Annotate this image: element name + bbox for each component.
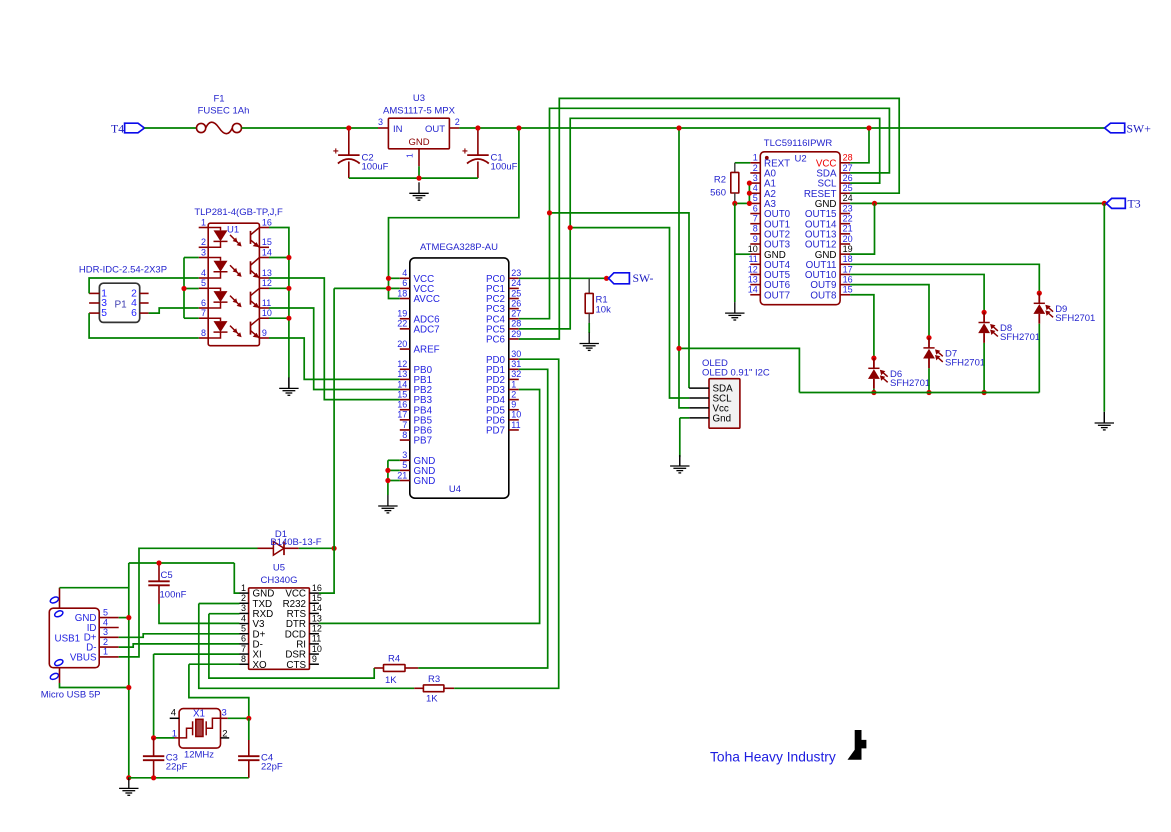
U5 pin 11 RI	[296, 634, 321, 651]
svg-text:R3: R3	[428, 674, 440, 685]
ground under U2	[725, 302, 744, 320]
wire SDA branch to OLED	[550, 213, 690, 388]
svg-text:15: 15	[397, 389, 407, 399]
ground under OLED	[670, 455, 689, 473]
svg-text:10k: 10k	[596, 304, 612, 315]
wire PC0 to SW-	[519, 277, 607, 279]
wire U2 OUT to D6	[850, 295, 874, 358]
svg-text:26: 26	[843, 173, 853, 183]
svg-text:9: 9	[262, 328, 267, 338]
svg-text:32: 32	[511, 369, 521, 379]
wire U5 RXD	[209, 613, 240, 615]
junction pin14	[286, 255, 291, 260]
svg-text:1: 1	[511, 379, 516, 389]
U1 pin 6	[199, 298, 209, 308]
svg-text:USB1: USB1	[55, 634, 81, 645]
wire U2 VCC pin28 to rail	[850, 128, 869, 163]
junction rail/U2 VCC	[866, 125, 871, 130]
svg-text:31: 31	[511, 359, 521, 369]
svg-text:7: 7	[753, 214, 758, 224]
U4 pin 30 PD0	[486, 349, 521, 366]
svg-text:29: 29	[511, 329, 521, 339]
svg-text:24: 24	[511, 278, 521, 288]
svg-text:20: 20	[843, 234, 853, 244]
wire X1 pin3 to C4	[228, 717, 249, 719]
svg-text:VBUS: VBUS	[70, 652, 97, 663]
svg-text:11: 11	[262, 298, 271, 308]
net flag T3	[1106, 198, 1125, 208]
net flag SW+	[1105, 123, 1125, 133]
U5 pin 12 DCD	[285, 624, 322, 641]
wire U5 XO	[189, 663, 240, 665]
svg-text:+: +	[462, 146, 468, 157]
wire U2 OUT to D7	[850, 285, 929, 338]
svg-text:2: 2	[241, 593, 246, 603]
svg-text:6: 6	[131, 308, 137, 319]
junction SCL branch	[568, 225, 573, 230]
U4 pin 18 AVCC	[397, 288, 440, 305]
U4 pin 25 PC2	[486, 288, 521, 305]
junction VCC pin4	[386, 276, 391, 281]
wire XO to X1 pin3	[189, 664, 249, 718]
ground under U1	[279, 377, 298, 395]
wire U1 pin14	[269, 257, 289, 259]
wire R3 to PD0	[454, 359, 559, 688]
U5 pin 10 DSR	[285, 644, 322, 661]
wire to U1 pin3	[184, 257, 199, 259]
wire OLED Gnd	[680, 417, 689, 419]
U5 pin 2 TXD	[240, 593, 273, 610]
svg-text:+: +	[333, 146, 339, 157]
svg-text:T4: T4	[111, 121, 124, 135]
wire A3 to R2 node	[735, 202, 751, 204]
junction A1	[747, 181, 752, 186]
U1 channel 1 LED/transistor	[208, 228, 259, 248]
svg-text:1: 1	[241, 583, 246, 593]
capacitor C3 22pF	[143, 738, 188, 778]
fuse F1	[197, 122, 242, 134]
U4 pin 17 PB5	[397, 410, 432, 427]
U4 pin 6 VCC	[400, 278, 434, 295]
U1 pin 15	[259, 237, 272, 247]
photodiode D7 SFH2701	[923, 338, 985, 393]
U2 pin 20 OUT12	[805, 234, 853, 251]
P1 pin 3	[89, 298, 107, 309]
svg-text:PD7: PD7	[486, 426, 505, 437]
svg-text:5: 5	[753, 193, 758, 203]
svg-text:10: 10	[262, 308, 272, 318]
wire shell to GND rail	[60, 587, 129, 589]
junction pin12	[286, 286, 291, 291]
svg-text:3: 3	[402, 450, 407, 460]
U1 pin 4	[199, 268, 209, 278]
U2 pin 23 OUT15	[805, 203, 853, 220]
junction GND pin21	[385, 478, 390, 483]
U4 pin 5 GND	[400, 460, 435, 477]
svg-text:U4: U4	[449, 484, 461, 495]
svg-text:100uF: 100uF	[362, 162, 389, 173]
U1 pin 13	[259, 268, 272, 278]
svg-text:6: 6	[753, 203, 758, 213]
U2 pin 28 VCC	[816, 153, 853, 170]
svg-text:1K: 1K	[426, 694, 438, 705]
P1 pin 4	[131, 298, 149, 309]
junction OLED Vcc branch	[676, 346, 681, 351]
U2 pin 6 OUT0	[750, 203, 790, 220]
net flag T4	[125, 123, 145, 133]
svg-text:10: 10	[511, 410, 521, 420]
wire RESET net PC6 to U2 RESET	[519, 98, 899, 339]
wire C5 to U5 V3	[159, 604, 240, 623]
svg-text:U2: U2	[795, 154, 807, 165]
wire to U1 pin5	[184, 288, 199, 290]
wire photodiode bottom rail	[799, 392, 1039, 394]
svg-text:560: 560	[710, 187, 726, 198]
junction D6 pin	[871, 356, 876, 361]
capacitor C2 100uF	[333, 128, 389, 178]
svg-text:18: 18	[397, 288, 407, 298]
junction D1/VCC net	[332, 546, 337, 551]
svg-text:1: 1	[753, 153, 758, 163]
svg-text:6: 6	[201, 298, 206, 308]
wire USB D+ to U5	[119, 634, 240, 638]
logo mark	[848, 730, 867, 760]
wire R2 node to ground	[734, 203, 736, 302]
svg-text:26: 26	[511, 298, 521, 308]
svg-text:1: 1	[201, 217, 206, 227]
net flag SW-	[609, 273, 630, 284]
mcu U4 ATMEGA328P-AU	[410, 242, 509, 498]
U2 pin 2 A0	[750, 163, 776, 180]
U4 pin 13 PB1	[397, 369, 432, 386]
U2 pin 10 GND	[748, 244, 786, 261]
P1 pin 2	[131, 289, 149, 300]
svg-text:ATMEGA328P-AU: ATMEGA328P-AU	[420, 242, 498, 253]
svg-text:F1: F1	[213, 94, 224, 105]
svg-text:18: 18	[843, 254, 853, 264]
U2 pin 11 OUT4	[748, 254, 790, 271]
svg-text:13: 13	[312, 613, 322, 623]
U2 pin 5 A3	[750, 193, 776, 210]
USB1 shell hole	[54, 610, 64, 618]
junction X1 pin1/C3	[151, 735, 156, 740]
junction D9 pin	[1037, 291, 1042, 296]
svg-text:19: 19	[843, 244, 853, 254]
svg-text:2: 2	[201, 237, 206, 247]
U2 pin 27 SDA	[816, 163, 852, 180]
svg-text:12: 12	[262, 278, 272, 288]
U1 pin 3	[199, 247, 209, 257]
capacitor C4 22pF	[238, 718, 283, 778]
junction pin10	[286, 316, 291, 321]
junction GND pin5	[385, 468, 390, 473]
wire fuse to U3 IN	[242, 127, 379, 129]
svg-text:SW+: SW+	[1127, 121, 1152, 135]
svg-text:16: 16	[262, 217, 272, 227]
svg-text:16: 16	[397, 400, 407, 410]
USB1 pin 4 ID	[87, 617, 119, 634]
svg-text:12MHz: 12MHz	[184, 750, 214, 761]
OLED pin Gnd	[689, 414, 731, 425]
wire XI down to X1 pin1	[153, 654, 155, 738]
svg-text:CH340G: CH340G	[261, 575, 298, 586]
svg-text:19: 19	[397, 309, 407, 319]
svg-text:10: 10	[312, 644, 322, 654]
svg-text:17: 17	[397, 410, 407, 420]
U1 pin 2	[199, 237, 209, 247]
crystal X1 12MHz	[170, 708, 230, 761]
U4 pin 7 PB6	[400, 420, 433, 437]
svg-text:Toha Heavy Industry: Toha Heavy Industry	[710, 750, 836, 765]
wire to U1 pin7	[184, 317, 199, 319]
svg-text:14: 14	[748, 285, 758, 295]
U1 channel 4 LED/transistor	[208, 318, 259, 338]
USB1 pin 1 VBUS	[70, 647, 119, 664]
wire to U2 GND pin10	[735, 253, 751, 255]
U2 pin 15 OUT8	[810, 285, 852, 302]
connector P1 HDR-IDC-2.54-2X3P	[79, 265, 167, 323]
svg-text:5: 5	[201, 278, 206, 288]
junction strap pin5	[181, 286, 186, 291]
svg-text:5: 5	[103, 607, 108, 617]
svg-text:GND: GND	[414, 476, 436, 487]
svg-text:Gnd: Gnd	[713, 414, 732, 425]
svg-text:OUT: OUT	[425, 124, 445, 135]
svg-text:9: 9	[753, 234, 758, 244]
svg-text:X1: X1	[193, 709, 205, 720]
U4 pin 22 ADC7	[397, 319, 439, 336]
USB1 shell top lead	[59, 588, 61, 609]
U1 pin 16	[259, 217, 272, 227]
wire TXD to R3	[199, 604, 414, 689]
wire U5 TXD	[199, 603, 240, 605]
U2 pin 8 OUT2	[750, 224, 790, 241]
junction rail/C1	[475, 125, 480, 130]
svg-text:22pF: 22pF	[166, 762, 188, 773]
U5 pin 7 XI	[240, 644, 262, 661]
P1 pin 5	[89, 308, 107, 319]
wire U4 GND pin3	[388, 459, 400, 461]
U1 channel 2 LED/transistor	[208, 258, 259, 279]
svg-text:8: 8	[241, 654, 246, 664]
USB1 pin 5 GND	[75, 607, 119, 624]
U1 pin 1	[199, 217, 209, 227]
svg-text:U5: U5	[273, 563, 285, 574]
svg-text:PC6: PC6	[486, 335, 506, 346]
U4 pin 32 PD2	[486, 369, 521, 386]
wire U1 pin10	[269, 317, 289, 319]
USB1 pin 3 D+	[84, 627, 119, 644]
wire bottom ground bus	[129, 777, 249, 779]
wire P1 pin6 to U1 pin6	[149, 308, 199, 313]
svg-text:15: 15	[312, 593, 322, 603]
svg-text:GND: GND	[408, 137, 429, 148]
svg-text:20: 20	[397, 339, 407, 349]
U4 pin 14 PB2	[397, 379, 432, 396]
svg-text:14: 14	[312, 603, 322, 613]
svg-text:8: 8	[201, 328, 206, 338]
svg-text:15: 15	[262, 237, 272, 247]
svg-text:5: 5	[101, 308, 107, 319]
U4 pin 9 PD5	[486, 400, 519, 417]
svg-text:4: 4	[402, 268, 407, 278]
U2 pin 4 A2	[750, 183, 776, 200]
resistor R4 1K	[374, 653, 418, 686]
wire T3 net down to ground	[1103, 203, 1105, 411]
svg-text:P1: P1	[115, 299, 128, 310]
svg-text:27: 27	[511, 309, 521, 319]
U1 pin 12	[259, 278, 272, 288]
svg-text:IN: IN	[393, 124, 403, 135]
svg-text:OUT7: OUT7	[764, 290, 790, 301]
wire U3 OUT to SW+ rail	[459, 127, 1104, 129]
U5 pin 3 RXD	[240, 603, 274, 620]
svg-text:13: 13	[262, 268, 272, 278]
svg-text:4: 4	[103, 617, 108, 627]
svg-text:SFH2701: SFH2701	[890, 378, 930, 389]
svg-text:2: 2	[753, 163, 758, 173]
svg-text:R4: R4	[388, 653, 400, 664]
wire VCC net vertical to U5 VCC	[319, 288, 334, 593]
U1 pin 14	[259, 247, 272, 257]
svg-text:100uF: 100uF	[491, 162, 518, 173]
P1 pin 1	[89, 289, 107, 300]
svg-text:AREF: AREF	[414, 345, 440, 356]
wire +5V branch to photodiode rail	[679, 348, 799, 392]
wire T4 to fuse F1	[144, 127, 196, 129]
U2 pin 9 OUT3	[750, 234, 790, 251]
wire shell bottom to rail	[60, 683, 129, 688]
svg-text:12: 12	[748, 264, 758, 274]
svg-text:10: 10	[748, 244, 758, 254]
U5 pin 1 GND	[240, 583, 275, 600]
wire RXD to R4	[209, 614, 374, 678]
regulator U3 AMS1117-5	[378, 93, 460, 166]
svg-text:16: 16	[312, 583, 322, 593]
svg-text:8: 8	[753, 224, 758, 234]
svg-text:3: 3	[103, 627, 108, 637]
wire U1 pin16 to ground bus	[269, 228, 289, 378]
svg-text:22pF: 22pF	[261, 762, 283, 773]
U5 pin 4 V3	[240, 613, 266, 630]
svg-text:17: 17	[843, 264, 853, 274]
junction D6 to rail	[871, 390, 876, 395]
svg-text:CTS: CTS	[286, 660, 306, 671]
svg-text:7: 7	[402, 420, 407, 430]
junction USB GND	[126, 615, 131, 620]
junction D8 pin	[982, 310, 987, 315]
svg-text:2: 2	[103, 637, 108, 647]
connector USB1 Micro USB 5P	[41, 608, 101, 700]
photodiode D8 SFH2701	[978, 312, 1040, 392]
junction rail/OLED Vcc	[676, 125, 681, 130]
photodiode D6 SFH2701	[868, 358, 930, 392]
svg-text:OLED 0.91" I2C: OLED 0.91" I2C	[702, 368, 770, 379]
wire P1 pin1 to U1 pin4	[89, 278, 199, 293]
U2 pin 13 OUT6	[748, 274, 791, 291]
svg-text:SFH2701: SFH2701	[1000, 332, 1040, 343]
U5 pin 8 XO	[240, 654, 268, 671]
ground under U3	[409, 182, 428, 200]
svg-text:23: 23	[511, 268, 521, 278]
svg-text:B140B-13-F: B140B-13-F	[270, 537, 321, 548]
wire U5 DTR to PD3	[319, 390, 540, 624]
svg-text:4: 4	[753, 183, 758, 193]
svg-text:7: 7	[201, 308, 206, 318]
wire D1 cathode	[299, 547, 334, 549]
wire +5V to OLED Vcc	[679, 128, 689, 408]
svg-text:5: 5	[241, 624, 246, 634]
wire SCL branch to OLED	[570, 228, 689, 398]
wire A1-A2-A3 strap	[748, 183, 750, 203]
U2 pin 1 REXT	[750, 153, 790, 170]
svg-text:14: 14	[262, 247, 272, 257]
junction C5 top	[156, 560, 161, 565]
U2 pin 25 RESET	[804, 183, 853, 200]
wire U3 GND to bus	[418, 166, 420, 178]
svg-text:21: 21	[843, 224, 853, 234]
svg-text:21: 21	[397, 470, 407, 480]
svg-text:1: 1	[103, 647, 108, 657]
junction D8 to rail	[982, 390, 987, 395]
U2 pin 3 A1	[750, 173, 776, 190]
svg-text:C5: C5	[161, 570, 173, 581]
wire U4 GND pin5	[388, 469, 400, 471]
led driver U2 TLC59116IPWR	[760, 138, 840, 305]
OLED pin Vcc	[689, 404, 729, 415]
svg-text:9: 9	[511, 400, 516, 410]
U2 pin 7 OUT1	[750, 214, 790, 231]
U4 pin 11 PD7	[486, 420, 521, 437]
junction rail/U4 feed	[516, 125, 521, 130]
U2 pin 16 OUT9	[810, 274, 852, 291]
svg-text:FUSEC 1Ah: FUSEC 1Ah	[198, 106, 250, 117]
wire C2-C1 ground bus	[349, 177, 478, 179]
svg-text:3: 3	[201, 247, 206, 257]
svg-text:4: 4	[171, 708, 176, 719]
svg-text:OUT8: OUT8	[810, 290, 837, 301]
svg-text:22: 22	[843, 214, 853, 224]
svg-text:3: 3	[378, 117, 383, 127]
wire to X1 pin1	[154, 737, 175, 739]
R1 lower lead	[588, 313, 590, 323]
U2 pin 26 SCL	[817, 173, 852, 190]
svg-text:3: 3	[241, 603, 246, 613]
svg-text:3: 3	[753, 173, 758, 183]
junction U3 GND node	[416, 176, 421, 181]
wire SDA net PC4 to U2 SDA	[519, 108, 890, 318]
svg-text:27: 27	[843, 163, 853, 173]
U4 pin 10 PD6	[486, 410, 521, 427]
wire anode strap	[183, 258, 185, 319]
junction C3/ground bus	[151, 775, 156, 780]
U2 pin 24 GND	[815, 193, 853, 210]
svg-text:13: 13	[397, 369, 407, 379]
wire USB GND to rail	[119, 617, 129, 619]
U4 pin 27 PC4	[486, 309, 521, 326]
svg-text:13: 13	[748, 274, 758, 284]
U4 pin 29 PC6	[486, 329, 521, 346]
U4 pin 19 ADC6	[397, 309, 440, 326]
svg-text:30: 30	[511, 349, 521, 359]
wire P1 pin5 to U1 pin8	[89, 313, 199, 338]
svg-text:14: 14	[397, 379, 407, 389]
U4 pin 20 AREF	[397, 339, 439, 356]
U1 pin 7	[199, 308, 209, 318]
junction D7 pin	[926, 335, 931, 340]
OLED pin SCL	[689, 394, 732, 405]
svg-text:5: 5	[402, 460, 407, 470]
